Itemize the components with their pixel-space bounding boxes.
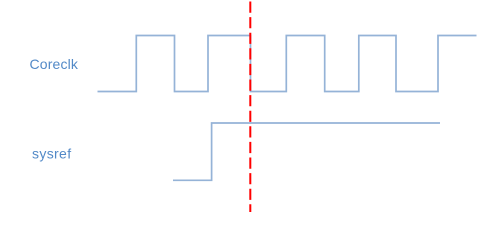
wire sysref waveform — [173, 123, 440, 180]
svg-text:Coreclk: Coreclk — [30, 56, 79, 72]
wire red dashed sampling marker line — [249, 2, 251, 213]
svg-text:sysref: sysref — [32, 146, 71, 162]
wire Coreclk clock waveform — [98, 36, 477, 92]
